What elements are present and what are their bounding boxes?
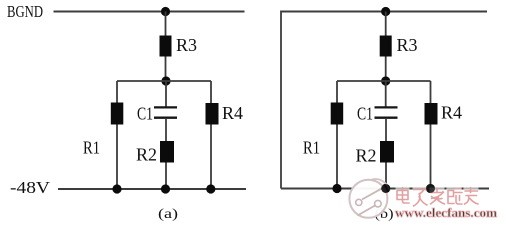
wire R3 bottom lead (b) <box>385 57 387 82</box>
junction dot bottom-right (a) <box>206 184 215 193</box>
junction dot bottom-mid (a) <box>161 184 170 193</box>
wire left branch (b) <box>336 81 338 189</box>
svg-text:R3: R3 <box>176 35 197 55</box>
junction dot top (b) <box>381 7 390 16</box>
wire left rail (b) <box>280 11 282 189</box>
resistor R1 (b) <box>331 103 344 125</box>
wire R3 top lead (a) <box>165 12 167 37</box>
junction dot mid (b) <box>381 76 390 85</box>
resistor R3 (b) <box>380 36 392 57</box>
watermark text 电子发烧友 (stylized pink glyphs) <box>396 188 479 207</box>
junction dot bottom-left (a) <box>112 184 121 193</box>
wire middle branch between C1 and R2 (a) <box>165 118 167 141</box>
junction dot top (a) <box>161 7 170 16</box>
wire BGND rail (a) <box>54 11 245 13</box>
wire right branch (b) <box>430 81 432 189</box>
capacitor C1 (b) <box>375 107 398 117</box>
junction dot bottom-right (b) <box>426 184 435 193</box>
wire middle branch between C1 and R2 (b) <box>385 118 387 141</box>
watermark logo circle <box>349 179 389 218</box>
wire BGND rail (b) <box>281 11 487 13</box>
wire R3 bottom lead (a) <box>165 57 167 82</box>
wire right branch (a) <box>210 81 212 189</box>
junction dot bottom-mid (b) repaint over watermark <box>381 184 390 193</box>
resistor R4 (a) <box>206 103 219 125</box>
wire -48V rail (a) <box>58 188 246 190</box>
svg-text:R1: R1 <box>83 137 100 157</box>
wire -48V rail (b) <box>281 188 489 190</box>
svg-text:R2: R2 <box>356 146 377 166</box>
svg-text:R4: R4 <box>441 103 462 123</box>
wire left branch (a) <box>116 81 118 189</box>
resistor R4 (b) <box>425 103 438 125</box>
wire middle branch upper (a) <box>165 81 167 107</box>
wire branch bus (a) <box>117 80 211 82</box>
svg-text:R3: R3 <box>397 35 418 55</box>
svg-text:C1: C1 <box>357 104 373 124</box>
wire middle branch lower (b) <box>385 163 387 189</box>
svg-text:R4: R4 <box>222 103 243 123</box>
wire middle branch lower (a) <box>165 163 167 190</box>
wire R3 top lead (b) <box>385 12 387 37</box>
junction dot bottom-right (b) repaint over watermark <box>426 184 435 193</box>
wire middle branch upper (b) <box>385 81 387 107</box>
svg-text:C1: C1 <box>137 104 153 124</box>
svg-text:BGND: BGND <box>7 2 43 21</box>
svg-text:R1: R1 <box>303 138 320 158</box>
svg-text:R2: R2 <box>136 144 157 164</box>
svg-text:www.elecfans.com: www.elecfans.com <box>395 206 498 220</box>
capacitor C1 (a) <box>154 107 177 117</box>
junction dot mid (a) <box>161 76 170 85</box>
wire branch bus (b) <box>337 80 431 82</box>
junction dot bottom-mid (b) <box>381 184 390 193</box>
resistor R3 (a) <box>160 36 172 57</box>
resistor R1 (a) <box>111 103 124 125</box>
svg-text:(a): (a) <box>158 206 178 221</box>
resistor R2 (b) <box>380 141 394 163</box>
svg-text:-48V: -48V <box>10 178 51 197</box>
junction dot bottom-left (b) <box>332 184 341 193</box>
resistor R2 (a) <box>160 141 174 163</box>
